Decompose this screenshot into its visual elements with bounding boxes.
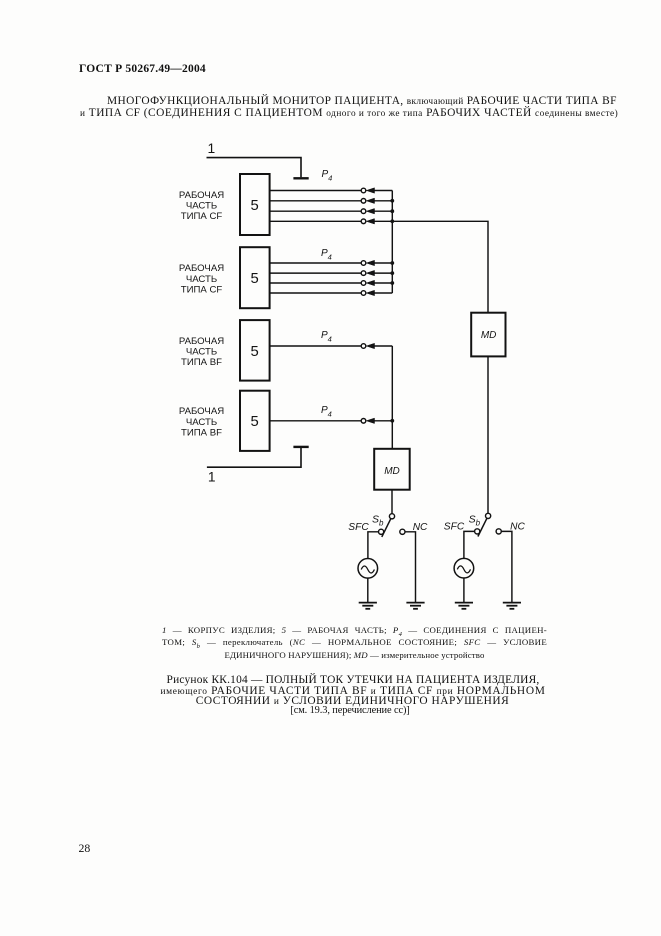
svg-text:5: 5 — [250, 344, 258, 360]
svg-text:5: 5 — [250, 198, 258, 214]
svg-text:ТИПА CF: ТИПА CF — [181, 211, 223, 222]
junction 2.1 — [390, 261, 394, 265]
junction 1.2 — [390, 199, 394, 203]
switch NC contact circle (right) — [496, 529, 501, 534]
caption line 1 — [167, 674, 540, 686]
wire: top enclosure lead — [207, 158, 302, 178]
switch Sb (left) blade — [382, 519, 391, 537]
svg-text:ТИПА BF: ТИПА BF — [181, 357, 222, 368]
caption line 3 — [196, 695, 510, 707]
switch Sb (right) blade — [478, 518, 487, 536]
wire: block4 patient lead — [270, 420, 362, 422]
wire: arrow 2.3 to bus — [374, 282, 393, 284]
wire: arrow 3 to BF bus — [374, 345, 393, 347]
svg-text:ЧАСТЬ: ЧАСТЬ — [186, 417, 217, 428]
patient connection circle 2.4 — [361, 291, 366, 296]
wire: SFC contact to source (right) — [464, 531, 475, 558]
wire: arrow 1.1 to bus — [374, 190, 393, 192]
AC source (left) — [358, 559, 378, 579]
wire: arrow 4 to BF bus — [374, 420, 393, 422]
wire: SFC contact to source (left) — [368, 532, 379, 559]
label РАБОЧАЯ ЧАСТЬ ТИПА BF (block 4) — [179, 406, 224, 438]
junction 1.4 — [390, 219, 394, 223]
wire: NC contact to ground (left) — [405, 532, 416, 602]
svg-text:Sb: Sb — [469, 513, 481, 527]
switch Sb (right) pivot circle — [486, 513, 491, 518]
svg-text:РАБОЧАЯ: РАБОЧАЯ — [179, 336, 224, 347]
svg-text:P4: P4 — [321, 405, 332, 418]
wire: bottom enclosure lead — [207, 447, 301, 467]
switch Sb (left) pivot circle — [389, 514, 394, 519]
svg-text:ЧАСТЬ: ЧАСТЬ — [186, 201, 217, 212]
junction 1.3 — [390, 209, 394, 213]
arrow 2.2 — [366, 270, 374, 275]
wire: block3 patient lead — [270, 345, 362, 347]
applied part block 3 (type BF) box 5 — [240, 320, 270, 381]
AC source sine (left) — [361, 566, 374, 573]
svg-text:РАБОЧАЯ: РАБОЧАЯ — [179, 190, 224, 201]
wire: arrow 2.1 to bus — [374, 262, 393, 264]
switch SFC contact circle (right) — [475, 529, 480, 534]
junction 2.2 — [390, 271, 394, 275]
label РАБОЧАЯ ЧАСТЬ ТИПА BF (block 3) — [179, 336, 224, 368]
wire: block1 patient lead 3 — [270, 210, 362, 212]
wire: block1 patient lead 4 — [270, 220, 362, 222]
AC source (right) — [454, 558, 474, 578]
patient connection circle 4 — [361, 419, 366, 424]
wire: block2 patient lead 3 — [270, 282, 362, 284]
wire: CF bus to measuring device MD1 — [392, 221, 488, 312]
junction 4 — [390, 419, 394, 423]
enclosure (corpus) terminal bar, bottom — [293, 446, 308, 448]
title line 2 — [80, 107, 618, 119]
patient connection circle 1.3 — [361, 209, 366, 214]
svg-text:MD: MD — [481, 330, 497, 341]
ground (left SFC) — [359, 603, 377, 609]
ground (right SFC) — [455, 603, 473, 609]
wire: block2 patient lead 1 — [270, 262, 362, 264]
svg-text:1: 1 — [208, 141, 216, 156]
AC source sine (right) — [457, 566, 470, 573]
measuring device MD2 box — [374, 449, 410, 490]
wire: arrow 1.2 to bus — [374, 200, 393, 202]
patient connection circle 3 — [361, 344, 366, 349]
wire: arrow 2.2 to bus — [374, 272, 393, 274]
applied part block 4 (type BF) box 5 — [240, 391, 270, 451]
arrow 2.1 — [366, 260, 374, 265]
svg-text:SFC: SFC — [444, 522, 465, 533]
patient connection circle 2.1 — [361, 261, 366, 266]
svg-text:РАБОЧАЯ: РАБОЧАЯ — [179, 406, 224, 417]
svg-text:P4: P4 — [321, 248, 332, 261]
wire: BF bus (vertical) to MD2 — [391, 346, 393, 449]
patient connection circle 1.4 — [361, 219, 366, 224]
legend line 1 — [162, 625, 547, 638]
svg-text:SFC: SFC — [348, 522, 369, 533]
applied part block 2 (type CF) box 5 — [240, 247, 270, 308]
legend line 2 — [162, 637, 547, 650]
svg-text:РАБОЧАЯ: РАБОЧАЯ — [179, 263, 224, 274]
wire: arrow 2.4 to bus — [374, 292, 393, 294]
svg-text:5: 5 — [250, 414, 258, 430]
label РАБОЧАЯ ЧАСТЬ ТИПА CF (block 1) — [179, 190, 224, 222]
patient connection circle 2.2 — [361, 271, 366, 276]
legend line 3 — [162, 650, 547, 660]
svg-text:1: 1 — [208, 470, 216, 485]
svg-text:ЧАСТЬ: ЧАСТЬ — [186, 274, 217, 285]
patient connection circle 1.1 — [361, 188, 366, 193]
wire: source to ground (right SFC) — [463, 578, 465, 602]
patient connection circle 2.3 — [361, 281, 366, 286]
wire: arrow 1.3 to bus — [374, 210, 393, 212]
wire: NC contact to ground (right) — [501, 531, 512, 602]
title line 1 — [107, 95, 617, 107]
junction 2.3 — [390, 281, 394, 285]
arrow 4 — [366, 418, 374, 423]
switch NC contact circle (left) — [400, 529, 405, 534]
svg-text:ТИПА CF: ТИПА CF — [181, 284, 223, 295]
arrow 1.4 — [366, 219, 374, 224]
arrow 2.4 — [366, 290, 374, 295]
enclosure (corpus) terminal bar, top — [293, 177, 308, 179]
wire: block1 patient lead 1 — [270, 190, 362, 192]
svg-text:P4: P4 — [322, 169, 333, 182]
wire: MD1 to switch Sb (right) — [487, 356, 489, 513]
svg-text:Sb: Sb — [372, 514, 384, 528]
wire: block2 patient lead 2 — [270, 272, 362, 274]
arrow 3 — [366, 343, 374, 348]
svg-text:5: 5 — [250, 271, 258, 287]
wire: source to ground (left SFC) — [367, 578, 369, 602]
page number — [79, 841, 91, 856]
svg-text:MD: MD — [384, 466, 400, 477]
arrow 1.2 — [366, 198, 374, 203]
patient connection circle 1.2 — [361, 199, 366, 204]
header: ГОСТ Р 50267.49—2004 — [79, 63, 206, 75]
applied part block 1 (type CF) box 5 — [240, 174, 270, 235]
arrow 2.3 — [366, 280, 374, 285]
wire: block1 patient lead 2 — [270, 200, 362, 202]
svg-text:ЧАСТЬ: ЧАСТЬ — [186, 346, 217, 357]
svg-text:P4: P4 — [321, 330, 332, 343]
arrow 1.3 — [366, 209, 374, 214]
switch SFC contact circle (left) — [379, 529, 384, 534]
arrow 1.1 — [366, 188, 374, 193]
ground (right NC) — [503, 603, 521, 609]
svg-text:ТИПА BF: ТИПА BF — [181, 427, 222, 438]
wire: CF bus (vertical) — [391, 191, 393, 294]
wire: MD2 to switch Sb (left) — [391, 490, 393, 514]
ground (left NC) — [406, 603, 424, 609]
wire: arrow 1.4 to bus — [374, 220, 393, 222]
measuring device MD1 box — [471, 313, 505, 357]
label РАБОЧАЯ ЧАСТЬ ТИПА CF (block 2) — [179, 263, 224, 295]
caption line 2 — [160, 685, 545, 697]
wire: block2 patient lead 4 — [270, 292, 362, 294]
caption line 4 — [290, 705, 409, 716]
